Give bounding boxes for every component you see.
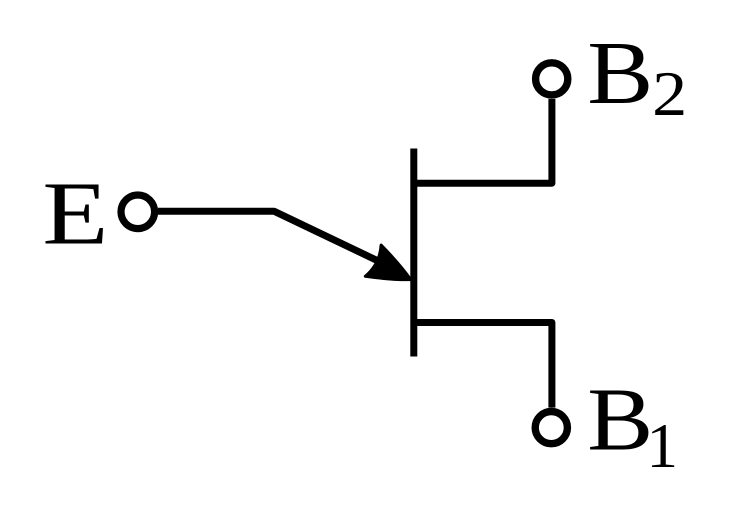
svg-text:B: B	[587, 24, 653, 123]
svg-text:B: B	[587, 370, 653, 469]
svg-text:E: E	[42, 164, 108, 263]
terminal B2 open circle	[536, 63, 568, 95]
unijunction transistor Q1 base bar	[410, 149, 417, 357]
wire B1 lead	[414, 323, 552, 408]
svg-text:2: 2	[652, 59, 687, 129]
terminal B1 open circle	[535, 412, 567, 444]
emitter arrowhead	[365, 245, 418, 295]
svg-text:1: 1	[647, 411, 679, 481]
terminal E open circle	[121, 195, 155, 229]
wire B2 lead	[414, 99, 552, 183]
wire emitter lead	[158, 211, 396, 269]
